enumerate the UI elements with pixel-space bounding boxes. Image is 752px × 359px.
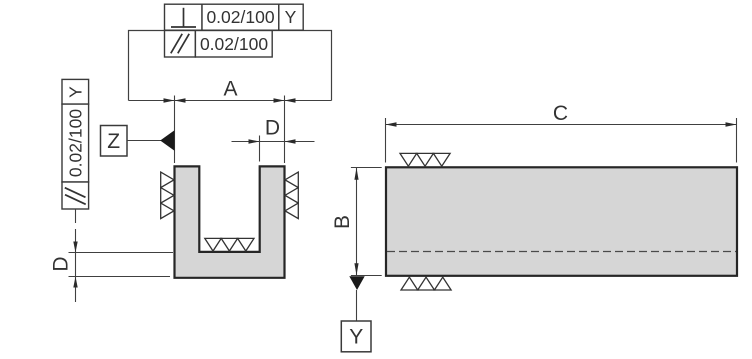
dimension D top arrowheads <box>249 139 296 143</box>
surface roughness triangles on U-channel right outer face <box>285 172 298 219</box>
dimension B extension line top <box>351 167 382 169</box>
datum Z label box <box>101 126 128 157</box>
perpendicularity symbol <box>171 8 196 27</box>
svg-text:Y: Y <box>65 86 85 98</box>
left FCF leader arrowhead <box>73 242 77 253</box>
dimension A extension line left <box>174 96 176 164</box>
dimension A line <box>129 100 332 102</box>
dimension D bottom extension line lower <box>69 276 171 278</box>
feature control frame FCF1 perpendicularity cell <box>165 4 203 30</box>
datum Z leader <box>127 140 161 142</box>
svg-text:D: D <box>50 256 73 271</box>
surface roughness triangles on U-channel inner bottom face <box>205 238 254 251</box>
datum Y leader <box>356 290 358 321</box>
svg-text:0.02/100: 0.02/100 <box>206 7 274 27</box>
dimension B line <box>356 168 358 276</box>
leader frame box around feature control frames <box>129 31 332 101</box>
dimension A arrowheads <box>164 98 296 102</box>
rectangular bar part body <box>386 167 737 275</box>
surface roughness triangles on bar bottom face <box>401 277 451 290</box>
svg-text:Y: Y <box>285 7 297 27</box>
FCF1 datum cell <box>279 4 303 30</box>
dimension C extension line right <box>736 118 738 163</box>
dimension C extension line left <box>385 118 387 163</box>
parallelism symbol <box>171 34 189 54</box>
dashed datum plane line in bar <box>387 251 736 253</box>
left FCF parallelism symbol rotated <box>65 188 86 205</box>
svg-text:C: C <box>553 102 568 125</box>
surface roughness triangles on bar top face <box>400 153 450 166</box>
datum Y filled triangle <box>349 276 364 290</box>
dimension D top extension line <box>259 136 261 162</box>
dimension B extension line bottom <box>351 275 382 277</box>
dimension D top line <box>232 141 315 143</box>
svg-text:Y: Y <box>349 326 363 349</box>
feature control frame FCF2 parallelism cell <box>165 31 196 58</box>
dimension A extension line right <box>284 96 286 164</box>
svg-text:D: D <box>265 116 280 139</box>
svg-text:Z: Z <box>107 130 120 153</box>
svg-text:B: B <box>331 215 354 229</box>
left vertical FCF tolerance cell <box>62 104 89 182</box>
svg-text:0.02/100: 0.02/100 <box>65 109 85 177</box>
svg-text:0.02/100: 0.02/100 <box>200 34 268 54</box>
leader from left FCF down to inner bottom extension <box>75 209 77 302</box>
datum Y label box <box>341 321 371 352</box>
surface roughness triangles on U-channel left outer face <box>161 172 174 219</box>
dimension B arrowheads <box>354 168 358 276</box>
svg-text:A: A <box>223 78 237 101</box>
dimension C arrowheads <box>386 122 737 126</box>
FCF1 tolerance cell <box>202 4 279 30</box>
left vertical FCF parallelism cell <box>62 182 89 209</box>
dimension D bottom arrowhead <box>73 277 77 288</box>
FCF2 tolerance cell <box>195 31 272 58</box>
left vertical FCF datum cell <box>62 79 89 104</box>
U-channel part body <box>175 166 285 277</box>
dimension D bottom extension line upper <box>69 252 174 254</box>
datum Z filled triangle <box>160 130 174 151</box>
dimension C line <box>386 124 737 126</box>
